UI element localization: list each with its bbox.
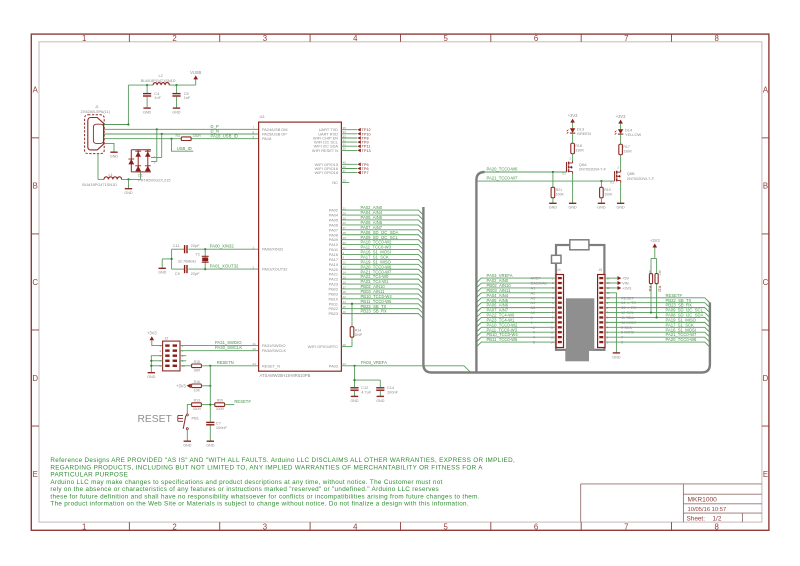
svg-text:PA21_TCC0-W7: PA21_TCC0-W7 — [487, 176, 519, 181]
svg-text:RESET#: RESET# — [234, 399, 251, 404]
svg-text:TP7: TP7 — [362, 171, 369, 175]
svg-text:B: B — [33, 182, 38, 191]
svg-text:A: A — [763, 86, 769, 95]
svg-text:J2: J2 — [165, 337, 169, 341]
wire +3V3 to R16 — [190, 385, 193, 387]
svg-text:+3V3: +3V3 — [568, 113, 578, 118]
junction R19 — [600, 180, 602, 182]
svg-text:L1: L1 — [109, 172, 113, 177]
svg-text:100nF: 100nF — [387, 389, 399, 394]
junction XOUT — [204, 268, 206, 270]
wire D_P — [104, 128, 258, 130]
header J2 SWD — [163, 337, 180, 371]
U3 bottom right pins — [308, 343, 346, 368]
svg-text:GND: GND — [549, 206, 558, 210]
svg-text:330R: 330R — [193, 134, 202, 138]
inductor L1 BLM18PG471SN1D — [82, 172, 121, 187]
svg-text:24: 24 — [343, 211, 347, 215]
wire D_N — [104, 133, 258, 135]
transistor Q6B 2N7002DW-7-F — [615, 166, 621, 183]
svg-text:GND: GND — [158, 271, 167, 275]
wire VIN pin — [605, 282, 618, 284]
svg-text:J5: J5 — [599, 268, 603, 272]
svg-text:330R: 330R — [623, 150, 632, 154]
junction R21 — [552, 171, 554, 173]
svg-text:12: 12 — [550, 330, 554, 334]
U3 fan net labels — [361, 205, 399, 314]
svg-text:22pF: 22pF — [191, 243, 200, 248]
svg-text:PA00_XIN32: PA00_XIN32 — [210, 244, 235, 249]
svg-text:37: 37 — [343, 285, 347, 289]
J5 function labels — [621, 295, 637, 344]
svg-text:330R: 330R — [193, 407, 202, 411]
junction PA03 — [353, 365, 355, 367]
TVS diode array D1 PRTR5V0U2X,215 — [128, 150, 170, 183]
junction VBUS — [127, 123, 129, 125]
crystal Y1 32.768kHz — [178, 249, 209, 269]
svg-text:10K: 10K — [194, 388, 201, 392]
svg-text:VUSB: VUSB — [190, 70, 201, 75]
svg-text:GND: GND — [616, 206, 625, 210]
svg-text:WIFI GPIO1/RTC: WIFI GPIO1/RTC — [308, 344, 338, 349]
net labels D_P D_N PA18_USB_ID — [211, 124, 238, 138]
svg-text:RESET_N: RESET_N — [262, 363, 280, 368]
svg-text:+3V3: +3V3 — [616, 114, 626, 119]
ground C12 — [350, 396, 359, 402]
inductor L2 BLM18PG471SN1D — [141, 73, 176, 85]
svg-text:L2: L2 — [159, 73, 163, 78]
junction R13 R20 — [209, 404, 211, 406]
bus branch vertical — [476, 172, 484, 373]
svg-text:DNP: DNP — [355, 333, 363, 337]
frame row ticks — [31, 138, 769, 426]
ground Q6A — [568, 203, 577, 209]
svg-text:R17: R17 — [623, 145, 629, 149]
wire D_N to D1 — [151, 134, 162, 158]
power VIN — [618, 281, 629, 286]
J4 pin numbers — [550, 276, 554, 344]
resistor R21 100K — [551, 172, 564, 203]
ground usb shell — [124, 189, 133, 195]
svg-text:1nF: 1nF — [154, 95, 161, 100]
junction USB_ID — [170, 138, 172, 140]
wire J2 gnd pins — [151, 356, 162, 373]
svg-text:4: 4 — [353, 522, 358, 531]
svg-text:12: 12 — [343, 261, 347, 265]
svg-text:R11: R11 — [648, 286, 652, 292]
svg-text:3: 3 — [263, 34, 267, 43]
svg-text:PB23: PB23 — [328, 311, 338, 316]
capacitor C14 100nF — [376, 385, 398, 396]
junction C12 — [353, 379, 355, 381]
ground C7 — [206, 441, 215, 447]
resistor R11 4K7 — [648, 270, 653, 292]
svg-text:2: 2 — [172, 522, 176, 531]
wire PA20_TCC0-W6 — [482, 171, 567, 173]
svg-text:rely on the absence or charact: rely on the absence or characteristics o… — [50, 486, 439, 493]
svg-text:PB11_TCC0-W5: PB11_TCC0-W5 — [487, 337, 519, 342]
capacitor C4 1nF — [143, 85, 162, 108]
wire reset vertical — [209, 366, 211, 422]
junction D_N — [161, 133, 163, 135]
svg-text:330R: 330R — [216, 407, 225, 411]
wire J5 gnd — [605, 293, 616, 353]
junction crystal left — [171, 258, 173, 260]
svg-text:10: 10 — [550, 321, 554, 325]
net label USB_ID stub — [172, 139, 194, 152]
wire USB GND pin — [104, 143, 114, 152]
resistor R16 10K — [192, 380, 202, 393]
svg-text:7: 7 — [624, 34, 628, 43]
wire XIN32 — [172, 248, 259, 250]
svg-text:Reference Designs ARE PROVIDED: Reference Designs ARE PROVIDED "AS IS" A… — [50, 457, 515, 464]
svg-text:32.768kHz: 32.768kHz — [178, 258, 197, 263]
junction D_P — [156, 128, 158, 130]
disclaimer text block — [50, 457, 515, 508]
svg-text:GND: GND — [183, 444, 192, 448]
svg-text:21: 21 — [253, 342, 257, 346]
svg-text:7: 7 — [624, 522, 628, 531]
wire pullup feeds — [651, 248, 657, 318]
svg-text:25: 25 — [343, 179, 347, 183]
capacitor C9 22pF — [175, 265, 200, 276]
svg-text:24: 24 — [253, 362, 257, 366]
svg-text:330R: 330R — [575, 149, 584, 153]
resistor R19 100K — [600, 181, 613, 203]
U3 fan pin numbers — [343, 206, 347, 314]
svg-text:R13: R13 — [194, 399, 200, 403]
svg-text:MKR1000: MKR1000 — [688, 497, 718, 504]
svg-text:4: 4 — [353, 34, 358, 43]
wire +3V3 to J2 pin1 — [152, 340, 163, 345]
svg-text:Sheet:: Sheet: — [687, 516, 706, 523]
svg-text:GND: GND — [350, 399, 359, 403]
svg-text:D: D — [32, 374, 38, 383]
wire R16 to net — [201, 385, 210, 387]
svg-text:PA00/XIN32: PA00/XIN32 — [262, 247, 283, 252]
power VUSB — [190, 70, 201, 80]
resistor R17 330R — [619, 144, 632, 155]
svg-text:GND: GND — [143, 111, 152, 115]
resistor R20 330R — [215, 399, 225, 412]
junction SCL pullup — [650, 311, 652, 313]
svg-text:+3V3: +3V3 — [147, 331, 157, 336]
svg-text:NC: NC — [332, 180, 338, 185]
svg-text:13: 13 — [343, 266, 347, 270]
svg-text:1/2: 1/2 — [713, 516, 722, 523]
svg-text:100K: 100K — [556, 193, 565, 197]
J4 pin function labels — [531, 276, 548, 345]
svg-text:R21: R21 — [556, 188, 562, 192]
resistor R12 4K7 — [655, 270, 661, 292]
svg-text:GND: GND — [110, 155, 119, 159]
svg-text:13: 13 — [550, 335, 554, 339]
frame inner border — [39, 42, 762, 522]
svg-text:PA30_SWCLK: PA30_SWCLK — [215, 345, 242, 350]
svg-text:PA30/SWCLK: PA30/SWCLK — [262, 348, 287, 353]
svg-text:11: 11 — [550, 326, 553, 330]
resistor R15 39R — [192, 360, 202, 373]
svg-text:100nF: 100nF — [216, 425, 228, 430]
svg-text:42: 42 — [343, 295, 347, 299]
svg-text:G1: G1 — [562, 172, 566, 176]
wires bus to J4 — [477, 278, 555, 346]
svg-text:38: 38 — [343, 290, 347, 294]
junction R16 — [209, 385, 211, 387]
ground R19 — [597, 203, 606, 209]
svg-text:GND: GND — [206, 444, 215, 448]
svg-text:47: 47 — [343, 169, 347, 173]
resistor R18 330R — [571, 143, 584, 154]
svg-text:WIFI GPIO18: WIFI GPIO18 — [315, 170, 338, 175]
svg-text:4.7uF: 4.7uF — [361, 389, 372, 394]
ground J5 — [612, 353, 621, 359]
header J4 — [556, 268, 563, 347]
svg-text:29: 29 — [343, 236, 347, 240]
svg-text:GND: GND — [376, 399, 385, 403]
svg-text:20: 20 — [253, 347, 257, 351]
svg-text:USB_ID: USB_ID — [177, 146, 192, 151]
svg-text:16: 16 — [343, 280, 347, 284]
svg-text:PA18_USB_ID: PA18_USB_ID — [211, 133, 238, 138]
power +3V3 R16 — [176, 383, 191, 388]
board component rect — [552, 255, 562, 263]
svg-text:39R: 39R — [194, 368, 201, 372]
svg-text:BLM18PG471SN1D: BLM18PG471SN1D — [141, 78, 176, 83]
svg-text:GND: GND — [172, 111, 181, 115]
U3 fan wires to bus — [341, 210, 423, 318]
svg-text:ZX62AB-5PA(11): ZX62AB-5PA(11) — [81, 109, 111, 114]
svg-text:21: 21 — [343, 206, 347, 210]
ground crystal — [158, 268, 167, 274]
svg-text:PA01_XOUT32: PA01_XOUT32 — [210, 264, 239, 269]
svg-text:PB23_SB_RX: PB23_SB_RX — [361, 309, 388, 314]
ground R21 — [549, 203, 558, 209]
U3 NC pin — [332, 179, 349, 185]
svg-text:R24: R24 — [355, 329, 361, 333]
wire XOUT32 — [172, 268, 259, 270]
wire PA31_SWDIO — [180, 345, 259, 347]
svg-text:E: E — [763, 470, 768, 479]
svg-text:+3V3: +3V3 — [650, 238, 660, 243]
svg-text:PA20_TCC0-W6: PA20_TCC0-W6 — [487, 166, 519, 171]
svg-text:Y1: Y1 — [195, 251, 200, 256]
svg-text:E: E — [33, 470, 38, 479]
svg-text:RESET: RESET — [138, 414, 173, 425]
svg-text:100K: 100K — [604, 193, 613, 197]
svg-text:1nF: 1nF — [184, 95, 191, 100]
label J1 ZX62AB-5PA(11) — [81, 105, 111, 114]
capacitor C11 22pF — [173, 243, 200, 253]
wire J2 pin10 to R15 — [180, 365, 192, 367]
wire +5V pin — [605, 277, 618, 279]
board outline — [556, 245, 604, 350]
svg-text:2: 2 — [172, 34, 176, 43]
J5 net labels — [666, 293, 704, 342]
svg-text:B: B — [763, 182, 768, 191]
wire USB_ID — [104, 138, 258, 140]
svg-text:8: 8 — [715, 34, 719, 43]
LED DL3 GREEN — [572, 123, 574, 129]
svg-text:The product information on the: The product information on the Web Site … — [50, 501, 469, 508]
title block outline — [581, 484, 762, 522]
testpoint wires and arrows — [341, 126, 370, 175]
U3 right upper pin names — [312, 127, 339, 175]
wire PA03_VREFA — [341, 366, 470, 372]
svg-text:RESETN: RESETN — [217, 360, 234, 365]
wifi module gray block — [565, 298, 594, 361]
wire USB shell to L1 — [98, 154, 141, 180]
svg-text:R3: R3 — [176, 134, 181, 138]
svg-text:44: 44 — [343, 300, 347, 304]
wire +3V3 pin — [605, 287, 618, 289]
ground J2 — [147, 373, 156, 379]
svg-text:27: 27 — [343, 226, 347, 230]
power +3V3 DL3 — [568, 113, 578, 123]
wires J5 to bus — [605, 298, 710, 347]
junction SDA pullup — [656, 316, 658, 318]
svg-text:G1: G1 — [610, 181, 614, 185]
U3 right lower pin rows — [328, 208, 338, 317]
capacitor C7 100nF — [206, 420, 227, 441]
wire to C12 C14 — [355, 366, 381, 387]
svg-text:C: C — [763, 278, 769, 287]
svg-text:R16: R16 — [194, 380, 200, 384]
wire switch to R13 — [187, 405, 191, 414]
power +3V3 SWD — [147, 331, 157, 341]
wire crystal left leg — [162, 249, 171, 269]
svg-text:2N7002DW-7-F: 2N7002DW-7-F — [579, 167, 607, 172]
header J5 — [598, 268, 605, 347]
svg-text:31: 31 — [343, 246, 347, 250]
svg-text:+3V3: +3V3 — [622, 285, 631, 290]
svg-text:4K7: 4K7 — [657, 270, 661, 276]
wire R17 to Q6B drain — [620, 155, 622, 171]
USB connector J1 — [85, 115, 105, 154]
junctions J2 gnd — [150, 360, 152, 367]
svg-text:BLM18PG471SN1D: BLM18PG471SN1D — [82, 182, 117, 187]
wire PB1 to gnd — [186, 430, 188, 442]
svg-text:R19: R19 — [604, 188, 610, 192]
svg-text:YELLOW: YELLOW — [625, 132, 642, 137]
svg-text:REGARDING PRODUCTS, INCLUDING: REGARDING PRODUCTS, INCLUDING BUT NOT LI… — [50, 464, 483, 471]
svg-text:PARTICULAR PURPOSE: PARTICULAR PURPOSE — [50, 472, 128, 479]
svg-text:15: 15 — [343, 275, 347, 279]
frame column ticks — [129, 34, 671, 530]
svg-text:R15: R15 — [194, 360, 200, 364]
svg-text:5: 5 — [443, 34, 448, 43]
op-amp U3 ATSAMW25 module box — [259, 122, 342, 371]
svg-text:WIFI RESET N: WIFI RESET N — [312, 148, 338, 153]
svg-text:PA01/XOUT32: PA01/XOUT32 — [262, 267, 287, 272]
svg-text:PB1: PB1 — [192, 415, 199, 420]
bus main loop — [423, 207, 710, 373]
svg-text:46: 46 — [343, 310, 347, 314]
svg-text:R20: R20 — [217, 399, 223, 403]
wire VUSB rail — [128, 79, 195, 85]
junction RESETN — [209, 365, 211, 367]
svg-text:1: 1 — [82, 522, 86, 531]
wire RESETN — [201, 365, 258, 367]
stub J2 pins 6 8 — [180, 356, 186, 361]
svg-text:R18: R18 — [575, 144, 581, 148]
junction shell gnd — [127, 178, 129, 180]
svg-text:C11: C11 — [173, 243, 180, 248]
capacitor C12 4.7uF — [350, 385, 371, 396]
svg-text:+3V3: +3V3 — [176, 383, 186, 388]
svg-text:10/05/16 10:57: 10/05/16 10:57 — [688, 507, 727, 513]
resistor R3 330R — [176, 134, 202, 140]
svg-text:4K7: 4K7 — [648, 270, 652, 276]
svg-text:25: 25 — [343, 216, 347, 220]
wire PA30_SWCLK — [180, 350, 259, 352]
svg-text:Arduino LLC may make changes t: Arduino LLC may make changes to specific… — [50, 479, 442, 486]
svg-text:GND: GND — [597, 206, 606, 210]
wire Q6A source to gnd — [572, 174, 574, 204]
svg-text:R12: R12 — [657, 286, 661, 292]
power +5V — [618, 276, 630, 281]
svg-text:TP13: TP13 — [362, 149, 371, 153]
svg-text:28: 28 — [343, 231, 347, 235]
svg-text:J4: J4 — [557, 268, 561, 272]
title block sheet — [687, 516, 722, 523]
wire VBUS from USB pin1 — [104, 85, 128, 124]
svg-text:5: 5 — [443, 522, 448, 531]
svg-text:14: 14 — [550, 340, 554, 344]
J5 pin numbers — [607, 276, 611, 344]
junction C5 — [175, 84, 177, 86]
svg-text:PA20_TCC0-W6: PA20_TCC0-W6 — [666, 337, 698, 342]
junction C4 — [146, 84, 148, 86]
svg-text:45: 45 — [343, 305, 347, 309]
svg-text:30: 30 — [343, 147, 347, 151]
ground C14 — [376, 396, 385, 402]
power +3V3 DL4 — [616, 114, 626, 124]
svg-text:A: A — [33, 86, 39, 95]
power +3V3 pullups — [650, 238, 660, 248]
resistor R13 330R — [192, 399, 202, 412]
J4 net labels — [487, 273, 519, 342]
wire R18 to Q6A drain — [572, 154, 574, 162]
wire Q6B source to gnd — [620, 183, 622, 204]
wire D_P to D1 — [151, 129, 157, 161]
svg-text:PRTR5V0U2X,215: PRTR5V0U2X,215 — [138, 178, 171, 183]
pushbutton PB1 — [178, 414, 199, 430]
frame row labels A-E — [32, 86, 769, 479]
svg-text:PA18: PA18 — [262, 136, 271, 141]
svg-text:C: C — [32, 278, 38, 287]
transistor Q6A 2N7002DW-7-F — [567, 157, 573, 174]
svg-text:30: 30 — [343, 241, 347, 245]
junction PB11 row — [351, 303, 353, 305]
svg-text:6: 6 — [621, 340, 623, 345]
wire WIFI GPIO1 to R24 — [341, 304, 352, 347]
svg-text:ATSAMW25H18-MR510PB: ATSAMW25H18-MR510PB — [260, 373, 311, 378]
wire PA21_TCC0-W7 — [476, 180, 614, 182]
power +3V3 J5 — [618, 285, 632, 290]
svg-text:14: 14 — [343, 270, 347, 274]
svg-text:PA03: PA03 — [329, 363, 338, 368]
wire DL3 to R18 — [572, 133, 574, 143]
svg-text:GND: GND — [147, 375, 156, 379]
wire to gnd — [128, 179, 130, 188]
capacitor C5 1nF — [172, 85, 191, 108]
svg-text:22pF: 22pF — [191, 271, 200, 276]
resistor R24 DNP — [350, 327, 363, 338]
wire RESET# label — [225, 404, 235, 406]
svg-text:6: 6 — [534, 34, 538, 43]
svg-text:1: 1 — [82, 34, 86, 43]
